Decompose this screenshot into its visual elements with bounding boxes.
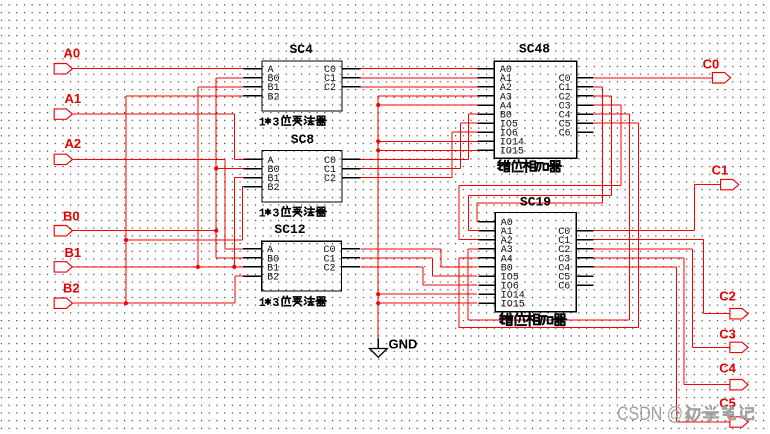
svg-text:B2: B2 xyxy=(267,272,279,283)
svg-text:3: 3 xyxy=(272,208,279,221)
svg-text:A2: A2 xyxy=(65,136,82,151)
svg-text:C2: C2 xyxy=(324,83,336,94)
svg-text:1: 1 xyxy=(259,297,266,310)
svg-text:3: 3 xyxy=(272,297,279,310)
svg-text:IO15: IO15 xyxy=(500,147,524,158)
svg-text:SC19: SC19 xyxy=(520,195,551,210)
svg-text:C2: C2 xyxy=(324,174,336,185)
svg-text:GND: GND xyxy=(389,337,418,352)
svg-text:A1: A1 xyxy=(65,91,82,106)
svg-text:B1: B1 xyxy=(65,245,82,260)
svg-text:SC12: SC12 xyxy=(274,222,305,237)
svg-text:C0: C0 xyxy=(703,57,720,72)
svg-text:B2: B2 xyxy=(268,183,280,194)
svg-text:C3: C3 xyxy=(719,327,736,342)
svg-text:1: 1 xyxy=(259,208,266,221)
svg-text:C6: C6 xyxy=(559,129,571,140)
svg-text:C2: C2 xyxy=(719,289,736,304)
svg-text:SC4: SC4 xyxy=(289,42,313,57)
svg-text:1: 1 xyxy=(259,117,266,130)
svg-text:B2: B2 xyxy=(63,281,80,296)
svg-text:C2: C2 xyxy=(323,263,335,274)
svg-text:C6: C6 xyxy=(558,282,570,293)
svg-text:C1: C1 xyxy=(712,163,729,178)
svg-text:C4: C4 xyxy=(719,361,736,376)
svg-text:SC8: SC8 xyxy=(291,132,315,147)
svg-text:SC48: SC48 xyxy=(519,42,550,57)
svg-text:B2: B2 xyxy=(268,92,280,103)
svg-text:CSDN @: CSDN @ xyxy=(617,403,683,425)
svg-text:B0: B0 xyxy=(63,209,80,224)
svg-text:A0: A0 xyxy=(64,46,81,61)
svg-text:3: 3 xyxy=(272,117,279,130)
svg-text:IO15: IO15 xyxy=(501,300,525,311)
